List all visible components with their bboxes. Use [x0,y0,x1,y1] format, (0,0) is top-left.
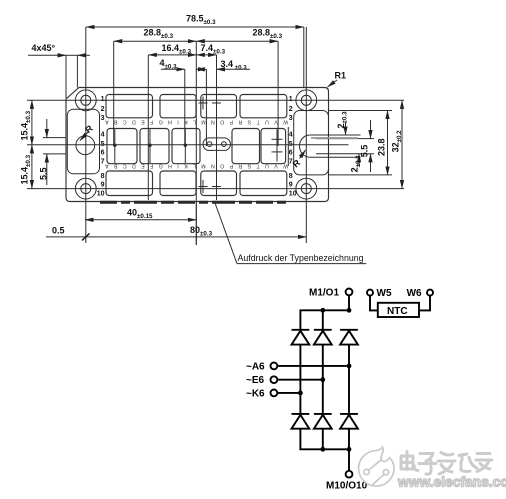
terminal letter row lower [105,163,289,169]
wire top bus [300,310,349,330]
mounting hole bottom-right [296,178,317,199]
extension 4 [184,69,186,146]
terminal blocks middle row [107,129,286,164]
row numbers left [97,96,105,198]
wire bottom bus [300,429,349,450]
dim 4x45 chamfer [28,43,90,98]
module outline [66,88,329,202]
svg-text:2: 2 [101,106,105,113]
svg-text:M1/O1: M1/O1 [309,287,339,298]
svg-text:1: 1 [101,96,105,103]
svg-text:Aufdruck der Typenbezeichnung: Aufdruck der Typenbezeichnung [238,253,364,263]
dim 4 [160,58,205,71]
svg-text:W5: W5 [377,288,392,299]
svg-text:6: 6 [289,150,293,157]
terminal blocks bottom row [106,171,287,196]
svg-text:10: 10 [289,191,297,198]
terminal letter row upper [105,119,289,125]
diode D2 [314,330,332,345]
extension 28.8 right [277,41,279,146]
svg-text:M10/O10: M10/O10 [326,481,368,492]
label R left hole [80,123,95,141]
dim 3.4 [199,59,251,72]
vertical extension left hole centres [85,27,87,243]
diode D1 [292,330,310,345]
svg-text:R1: R1 [335,71,347,81]
svg-text:www.elecfans.com: www.elecfans.com [397,475,506,490]
label R1 corner radius [328,71,347,88]
svg-text:23.8: 23.8 [377,138,387,156]
watermark chinese text 电子发烧友 [401,452,492,475]
dim 7.4 [196,43,225,56]
wire to M10/O10 [348,449,350,471]
wire branches mid section [299,345,301,414]
dim 40 bottom [85,204,196,246]
pin crosses bottom row [199,180,222,193]
dim 15.4 upper left [20,100,33,145]
pin crosses middle-right block [272,130,283,162]
extension 5.5 right [361,138,375,140]
right terminal nose [300,135,361,157]
dim 23.8 right [377,111,388,175]
node A6 [347,364,352,369]
elecfans logo [359,447,394,486]
node bottom bus right [347,447,352,452]
terminal W6 [407,288,433,299]
svg-text:W6: W6 [407,288,422,299]
label R nose radius [291,150,306,169]
dim 16.4 [148,43,196,56]
node top bus right [347,308,352,313]
mounting hole bottom-left [75,178,96,199]
mounting hole top-left [75,90,96,111]
diode D6 [340,414,358,429]
dim 78.5 [86,14,304,28]
svg-text:4: 4 [289,132,293,139]
dim 5.5 right [360,120,371,172]
center dogbone slot [203,138,230,151]
terminal M1/O1 [309,287,352,298]
svg-text:8: 8 [101,173,105,180]
svg-text:5.5: 5.5 [39,167,49,180]
row numbers right [289,96,297,198]
wire ~E6 [277,379,323,381]
dim 15.4 lower left [20,145,33,189]
svg-text:6: 6 [101,150,105,157]
svg-text:5.5: 5.5 [360,145,370,158]
node K6 [298,391,303,396]
svg-text:~A6: ~A6 [246,361,265,372]
extension 78.5 right [303,27,305,88]
dim 32 right [391,100,404,188]
dim 5.5 left [39,119,67,185]
dim 28.8 right [196,27,282,41]
svg-text:7: 7 [101,159,105,166]
dim 28.8 left [114,27,197,41]
extension 28.8 left [113,41,115,146]
extension 7.4 [216,55,218,200]
label Aufdruck der Typenbezeichnung [215,203,366,264]
wire ~A6 [277,365,349,367]
extension 3.4 [205,69,207,146]
svg-text:1: 1 [289,96,293,103]
wire W6 to NTC [419,296,430,311]
extension nose top [335,134,348,136]
extension 23.8 top [329,110,393,112]
svg-text:~E6: ~E6 [246,375,265,386]
node top bus mid [320,308,325,313]
dim 80 bottom [46,225,306,241]
wire ~K6 [277,392,300,394]
dim 2 top right [336,111,349,135]
wire W5 to NTC [370,296,378,311]
diode D5 [314,414,332,429]
svg-text:~K6: ~K6 [246,388,265,399]
wire M1/O1 to top bus [348,295,350,310]
vertical extension right hole centres [305,27,307,243]
dim 2 bottom right [350,154,363,173]
terminal W5 [367,288,392,299]
right flange cutout [294,111,329,175]
svg-text:3: 3 [289,115,293,122]
node bottom bus mid [320,447,325,452]
svg-text:4x45°: 4x45° [32,43,56,53]
svg-text:NTC: NTC [387,306,408,317]
svg-text:9: 9 [289,182,293,189]
terminal ~A6 [246,361,277,372]
svg-text:3: 3 [101,115,105,122]
baseplate dashed edge [100,201,289,204]
NTC resistor [378,303,419,317]
extension 16.4 [147,55,149,200]
svg-text:10: 10 [97,191,105,198]
terminal ~E6 [246,375,277,386]
pin dots middle row [113,129,187,163]
node E6 [320,377,325,382]
horizontal centre line [27,144,349,146]
vertical centre line [195,41,197,245]
svg-text:9: 9 [101,182,105,189]
center-left fixing hole [76,136,95,155]
mid row right boundary line [287,127,289,166]
extension line through top hole centers [27,99,404,101]
diode D4 [292,414,310,429]
diode D3 [340,330,358,345]
terminal blocks top row [106,95,287,118]
mounting hole top-right [296,90,317,111]
left flange cutout [67,109,99,174]
svg-text:8: 8 [289,173,293,180]
terminal ~K6 [246,388,277,399]
svg-text:0.5: 0.5 [52,226,65,236]
terminal M10/O10 [326,471,368,492]
extension line through bottom hole centers [27,188,404,190]
pin crosses top row [199,97,222,110]
svg-text:2: 2 [289,106,293,113]
svg-text:4: 4 [101,132,105,139]
extension 23.8 bottom [329,174,393,176]
